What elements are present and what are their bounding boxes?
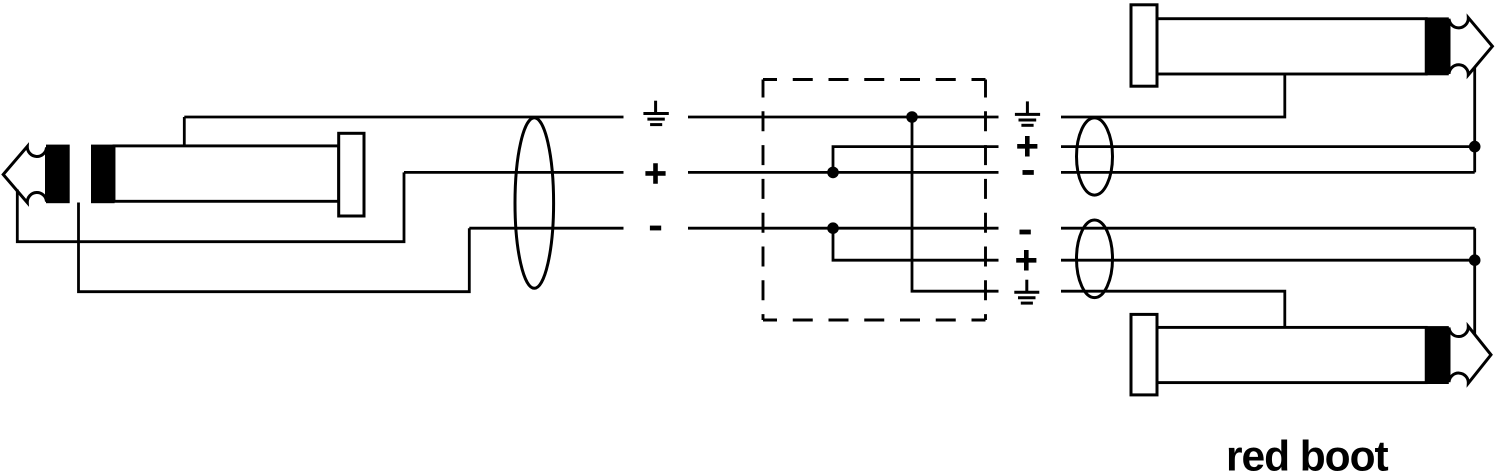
plus label left <box>645 163 665 184</box>
wire: bottom jack tip riser <box>1473 228 1476 334</box>
bottom jack barrel <box>1157 327 1426 382</box>
ground symbol right top <box>1015 101 1040 125</box>
wire: minus line left segment <box>469 227 623 230</box>
wire: minus line into box <box>688 227 999 230</box>
left TRS plug tip <box>3 146 46 202</box>
wire: bottom minus line right segment <box>1061 227 1475 230</box>
right cable shield ellipse bottom <box>1077 220 1113 298</box>
wire: ground line into box <box>688 116 999 119</box>
wire: top plus line right segment <box>1061 145 1475 148</box>
plus label right bottom <box>1016 250 1036 271</box>
wire: top jack tip drop <box>1473 67 1476 173</box>
wire: plus tap up to top plus line <box>833 147 999 173</box>
top jack insulator band <box>1425 17 1448 75</box>
left cable shield ellipse <box>515 118 554 289</box>
svg-text:red boot: red boot <box>1226 434 1388 472</box>
left plug barrel (sleeve) <box>114 146 339 201</box>
wire: left sleeve to ground line <box>183 117 186 147</box>
wire: left ring down and right <box>79 203 470 292</box>
wire: top minus line right segment <box>1061 171 1475 174</box>
bottom jack insulator band <box>1425 326 1448 384</box>
wire: plus line left segment <box>404 171 624 174</box>
wire: ground tap down to bottom ground line <box>912 117 999 291</box>
wire: ground line left segment <box>184 116 623 119</box>
wire: top ground to sleeve of top jack <box>1061 74 1285 117</box>
wire: left tip down and right <box>17 172 404 241</box>
minus label right bottom <box>1020 230 1031 235</box>
top jack barrel <box>1157 19 1426 74</box>
junction dot top right <box>1469 141 1481 153</box>
ground symbol left <box>643 101 668 125</box>
wire: plus line into box <box>688 171 999 174</box>
plus label right top <box>1017 136 1037 157</box>
minus label right top <box>1023 170 1034 175</box>
wire: bottom ground to sleeve of bottom jack <box>1061 291 1285 327</box>
top jack collar <box>1131 5 1157 86</box>
left plug insulator band 1 <box>46 145 70 204</box>
right cable shield ellipse top <box>1077 118 1113 195</box>
left plug insulator band 2 (ring contact between) <box>91 145 115 204</box>
bottom TS jack tip <box>1449 326 1491 383</box>
junction dot plus tap <box>827 167 839 179</box>
junction dot bottom right <box>1469 254 1481 266</box>
wire: minus tap down to bottom plus line <box>833 228 999 260</box>
ground symbol right bottom <box>1014 280 1039 303</box>
junction dot minus tap <box>827 222 839 234</box>
top TS jack tip <box>1449 18 1492 75</box>
minus label left <box>650 226 661 231</box>
left plug collar <box>339 133 364 216</box>
dashed adapter box <box>763 80 986 321</box>
wire: bottom plus line right segment <box>1061 259 1475 262</box>
junction dot ground tap <box>906 111 918 123</box>
bottom jack collar <box>1131 314 1157 395</box>
